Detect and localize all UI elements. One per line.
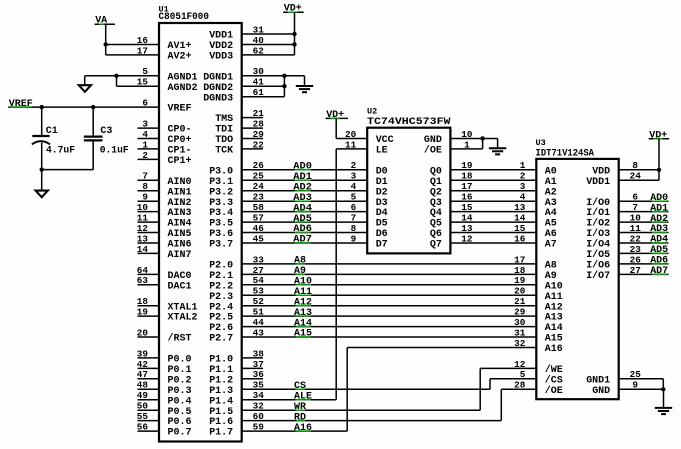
- svg-text:D0: D0: [376, 166, 388, 177]
- svg-text:P2.0: P2.0: [209, 261, 233, 272]
- net label AD3: [293, 193, 312, 204]
- svg-text:GND1: GND1: [586, 375, 610, 386]
- svg-text:15: 15: [514, 223, 525, 234]
- svg-text:AD3: AD3: [293, 193, 312, 204]
- net label A14: [294, 318, 312, 329]
- svg-text:4: 4: [520, 192, 526, 203]
- pin 11 AIN4 stub: [138, 221, 160, 223]
- pin 55 P0.6 stub: [138, 420, 160, 422]
- svg-text:A14: A14: [545, 323, 563, 334]
- svg-text:AIN3: AIN3: [168, 208, 192, 219]
- capacitor C3 0.1uF: [84, 107, 129, 170]
- net label AD4 (U3): [650, 235, 668, 246]
- svg-text:32: 32: [514, 338, 525, 349]
- wire /WE to WR vertical: [479, 368, 481, 410]
- net label VD+ (U2): [326, 110, 349, 121]
- svg-text:AIN2: AIN2: [168, 198, 192, 209]
- pin 3 CP0- stub: [138, 127, 160, 129]
- wire VD+ vertical (U2): [335, 118, 337, 138]
- pin 10 AIN3 stub: [138, 211, 160, 213]
- wire I/O6: [619, 263, 669, 265]
- wire I/O7: [619, 273, 669, 275]
- svg-text:TMS: TMS: [215, 114, 233, 125]
- ground U2: [489, 139, 506, 155]
- svg-text:D2: D2: [376, 187, 388, 198]
- svg-text:D4: D4: [376, 208, 388, 219]
- wire VA vertical: [105, 24, 107, 55]
- pin 39 P0.0 stub: [138, 357, 160, 359]
- svg-text:A2: A2: [545, 187, 557, 198]
- svg-text:A12: A12: [545, 302, 563, 313]
- svg-text:A4: A4: [545, 208, 557, 219]
- svg-text:20: 20: [514, 286, 525, 297]
- svg-text:DGND2: DGND2: [203, 83, 233, 94]
- svg-text:P1.6: P1.6: [209, 417, 233, 428]
- junction GND//OE: [480, 136, 484, 140]
- wire A16 to U3: [347, 347, 536, 349]
- svg-text:I/O6: I/O6: [586, 260, 610, 272]
- wire GND1 pin 25: [619, 378, 664, 380]
- junction DGND1: [282, 74, 286, 78]
- svg-text:VREF: VREF: [168, 104, 192, 115]
- svg-text:AD0: AD0: [293, 162, 312, 173]
- wire AD1: [242, 179, 368, 181]
- svg-text:P2.7: P2.7: [209, 334, 233, 345]
- svg-text:AD6: AD6: [293, 224, 312, 235]
- net label VREF: [9, 99, 33, 110]
- net label A10: [294, 277, 312, 288]
- wire A16 vertical: [346, 348, 348, 432]
- svg-text:AD4: AD4: [293, 203, 312, 214]
- svg-text:VD+: VD+: [326, 110, 344, 121]
- wire AGND junction drop: [116, 76, 118, 86]
- pin 49 P0.4 stub: [138, 399, 160, 401]
- svg-text:A13: A13: [545, 313, 563, 324]
- net label AD6: [293, 224, 312, 235]
- wire AD6: [242, 232, 368, 234]
- pin 56 P0.7 stub: [138, 430, 160, 432]
- svg-text:P3.0: P3.0: [209, 166, 233, 177]
- svg-text:AD2: AD2: [293, 183, 312, 194]
- wire /OE pin 28: [501, 388, 536, 390]
- wire /OE pin 1: [450, 148, 482, 150]
- pin 13 AIN6 stub: [138, 242, 160, 244]
- wire AD2: [242, 190, 368, 192]
- svg-text:1: 1: [520, 160, 526, 171]
- svg-text:3: 3: [520, 181, 526, 192]
- svg-text:18: 18: [514, 265, 525, 276]
- junction GND U3: [661, 387, 665, 391]
- wire GND pin 9: [619, 388, 664, 390]
- svg-text:CS: CS: [294, 381, 306, 392]
- junction AGND: [114, 74, 118, 78]
- svg-text:D5: D5: [376, 219, 388, 230]
- pin 2 CP1+ stub: [138, 158, 160, 160]
- svg-text:P2.5: P2.5: [209, 313, 233, 324]
- svg-text:19: 19: [514, 275, 525, 286]
- svg-text:/RST: /RST: [168, 333, 192, 345]
- svg-text:P0.4: P0.4: [168, 396, 192, 407]
- svg-text:/OE: /OE: [424, 145, 442, 157]
- wire A10: [242, 284, 537, 286]
- svg-text:A1: A1: [545, 177, 557, 188]
- svg-text:DGND1: DGND1: [203, 72, 233, 83]
- pin 36 P1.2 stub: [242, 378, 263, 380]
- svg-text:XTAL2: XTAL2: [168, 313, 198, 324]
- svg-text:TCK: TCK: [215, 146, 233, 157]
- svg-text:XTAL1: XTAL1: [168, 302, 198, 313]
- svg-text:VDD3: VDD3: [209, 52, 233, 63]
- svg-text:A16: A16: [294, 423, 312, 434]
- wire VD+ vertical (U3): [658, 139, 660, 181]
- pin 47 P0.2 stub: [138, 378, 160, 380]
- svg-text:A11: A11: [545, 292, 563, 303]
- svg-text:A13: A13: [294, 308, 312, 319]
- pin 22 TCK stub: [242, 148, 263, 150]
- wire AGND drop: [84, 76, 86, 85]
- svg-text:AIN0: AIN0: [168, 177, 192, 188]
- net label A15: [294, 329, 312, 340]
- svg-text:TC74VHC573FW: TC74VHC573FW: [367, 117, 451, 128]
- wire Q5 to A5: [450, 221, 536, 223]
- svg-text:GND: GND: [424, 135, 442, 146]
- wire VDD3 pin 62: [242, 54, 295, 56]
- wire A15: [242, 336, 537, 338]
- svg-text:P3.3: P3.3: [209, 198, 233, 209]
- pin 7 AIN0 stub: [138, 179, 160, 181]
- wire Q3 to A3: [450, 200, 536, 202]
- svg-text:A9: A9: [294, 266, 306, 277]
- wire ALE to LE vertical: [335, 149, 337, 400]
- svg-text:I/O7: I/O7: [586, 270, 610, 282]
- svg-text:IDT71V124SA: IDT71V124SA: [536, 148, 595, 159]
- svg-text:A16: A16: [545, 344, 563, 355]
- svg-text:VCC: VCC: [376, 135, 394, 146]
- svg-text:P2.4: P2.4: [209, 302, 233, 313]
- svg-text:AIN1: AIN1: [168, 187, 192, 198]
- svg-text:C1: C1: [46, 126, 58, 137]
- pin 21 TMS stub: [242, 117, 263, 119]
- svg-text:9: 9: [351, 233, 357, 244]
- svg-text:16: 16: [514, 233, 525, 244]
- svg-text:4.7uF: 4.7uF: [46, 146, 75, 157]
- net label CS: [294, 381, 306, 392]
- svg-text:I/O2: I/O2: [586, 218, 610, 230]
- pin 42 P0.1 stub: [138, 367, 160, 369]
- wire AD7: [242, 242, 368, 244]
- net label AD5 (U3): [650, 245, 668, 256]
- svg-text:4: 4: [351, 181, 357, 192]
- svg-text:P1.3: P1.3: [209, 386, 233, 397]
- svg-text:P2.1: P2.1: [209, 271, 233, 282]
- pin 12 AIN5 stub: [138, 232, 160, 234]
- svg-text:7: 7: [351, 213, 357, 224]
- wire A8: [242, 263, 537, 265]
- svg-text:A11: A11: [294, 287, 312, 298]
- svg-text:DAC1: DAC1: [168, 281, 192, 292]
- svg-text:CP1+: CP1+: [168, 156, 192, 167]
- svg-text:2: 2: [351, 160, 357, 171]
- svg-text:I/O5: I/O5: [586, 249, 610, 261]
- svg-text:AD7: AD7: [650, 266, 668, 277]
- pin 37 P1.1 stub: [242, 367, 263, 369]
- svg-text:A14: A14: [294, 318, 312, 329]
- net label A16: [294, 423, 312, 434]
- svg-text:A10: A10: [545, 281, 563, 292]
- wire I/O4: [619, 242, 669, 244]
- wire C1-C3 bottom: [42, 169, 93, 171]
- svg-text:Q7: Q7: [430, 240, 442, 251]
- svg-text:/WE: /WE: [545, 364, 563, 376]
- svg-text:CP0-: CP0-: [168, 125, 192, 136]
- net label AD1: [293, 172, 312, 183]
- wire I/O1: [619, 211, 669, 213]
- svg-text:I/O4: I/O4: [586, 239, 610, 251]
- svg-text:AD1: AD1: [650, 203, 668, 214]
- svg-text:C8051F000: C8051F000: [159, 12, 210, 23]
- wire A13: [242, 315, 537, 317]
- svg-text:GND: GND: [592, 386, 610, 397]
- svg-text:P3.2: P3.2: [209, 187, 233, 198]
- junction VREF/C3: [91, 105, 95, 109]
- svg-text:Q3: Q3: [430, 198, 442, 209]
- wire VDD pin 8: [619, 169, 659, 171]
- svg-text:6: 6: [351, 202, 357, 213]
- svg-text:A9: A9: [545, 271, 557, 282]
- IC U2 TC74VHC573FW: [345, 107, 473, 254]
- svg-text:ALE: ALE: [294, 392, 312, 403]
- svg-text:P2.3: P2.3: [209, 292, 233, 303]
- wire DGND3 pin 61: [242, 96, 285, 98]
- wire AGND1 pin 5: [85, 75, 159, 77]
- pin 14 AIN7 stub: [138, 252, 160, 254]
- svg-text:VDD1: VDD1: [209, 31, 233, 42]
- svg-text:P1.1: P1.1: [209, 365, 233, 376]
- wire VDD2 pin 40: [242, 44, 295, 46]
- pin 29 TDO stub: [242, 138, 263, 140]
- wire Q2 to A2: [450, 190, 536, 192]
- junction VDD2: [292, 42, 296, 46]
- wire VD+ vertical (U1): [294, 12, 296, 55]
- svg-text:VDD2: VDD2: [209, 41, 233, 52]
- net label AD5: [293, 214, 312, 225]
- wire I/O3: [619, 232, 669, 234]
- svg-text:Q5: Q5: [430, 219, 442, 230]
- net label AD2: [293, 183, 312, 194]
- net label AD7: [293, 235, 312, 246]
- svg-text:A6: A6: [545, 229, 557, 240]
- svg-text:AD3: AD3: [650, 224, 668, 235]
- svg-text:14: 14: [514, 213, 525, 224]
- svg-text:AV1+: AV1+: [168, 41, 192, 52]
- pin 28 TDI stub: [242, 127, 263, 129]
- svg-text:D1: D1: [376, 177, 388, 188]
- svg-text:A12: A12: [294, 297, 312, 308]
- wire A9: [242, 273, 537, 275]
- pin 63 DAC1 stub: [138, 284, 160, 286]
- svg-text:P0.5: P0.5: [168, 407, 192, 418]
- net label RD: [294, 412, 306, 423]
- svg-text:P2.6: P2.6: [209, 323, 233, 334]
- svg-text:D6: D6: [376, 229, 388, 240]
- svg-text:P0.7: P0.7: [168, 428, 192, 439]
- wire Q4 to A4: [450, 211, 536, 213]
- svg-text:RD: RD: [294, 412, 306, 423]
- svg-text:C3: C3: [100, 126, 112, 137]
- wire LE pin 11: [336, 148, 367, 150]
- net label AD6 (U3): [650, 256, 668, 267]
- IC U3 IDT71V124SA: [514, 138, 641, 399]
- svg-text:I/O3: I/O3: [586, 228, 610, 240]
- svg-text:I/O1: I/O1: [586, 207, 610, 219]
- svg-text:A8: A8: [545, 261, 557, 272]
- wire AGND2 pin 15: [117, 85, 160, 87]
- svg-text:5: 5: [351, 192, 357, 203]
- svg-text:3: 3: [351, 171, 357, 182]
- wire to analog ground: [41, 170, 43, 191]
- wire VCC pin 20: [336, 138, 367, 140]
- svg-text:A0: A0: [545, 166, 557, 177]
- svg-text:P1.5: P1.5: [209, 407, 233, 418]
- wire VA to AV1+ pin 16: [106, 44, 159, 46]
- svg-text:AD7: AD7: [293, 235, 312, 246]
- ground U3: [655, 389, 672, 414]
- net label AD7 (U3): [650, 266, 668, 277]
- wire RD: [242, 420, 502, 422]
- svg-text:VD+: VD+: [284, 4, 302, 15]
- svg-text:Q1: Q1: [430, 177, 442, 188]
- svg-text:30: 30: [514, 317, 525, 328]
- svg-text:D3: D3: [376, 198, 388, 209]
- wire A14: [242, 326, 537, 328]
- wire I/O5: [619, 252, 669, 254]
- svg-text:A3: A3: [545, 198, 557, 209]
- junction VA/AV1+: [104, 42, 108, 46]
- wire Q7 to A7: [450, 242, 536, 244]
- wire GND pin 10: [450, 138, 497, 140]
- wire VDD1 pin 24: [619, 179, 659, 181]
- svg-text:A7: A7: [545, 240, 557, 251]
- wire CS: [242, 388, 490, 390]
- svg-text:P3.5: P3.5: [209, 219, 233, 230]
- svg-text:AV2+: AV2+: [168, 52, 192, 63]
- wire Q1 to A1: [450, 179, 536, 181]
- net label VD+ (U3): [649, 130, 670, 141]
- wire A12: [242, 305, 537, 307]
- pin 48 P0.3 stub: [138, 388, 160, 390]
- digital ground DGND: [296, 76, 313, 92]
- svg-text:A10: A10: [294, 277, 312, 288]
- net label VA: [95, 16, 116, 27]
- wire A11: [242, 294, 537, 296]
- svg-text:P1.4: P1.4: [209, 396, 233, 407]
- svg-text:AIN5: AIN5: [168, 229, 192, 240]
- svg-text:AGND2: AGND2: [168, 83, 198, 94]
- svg-text:AD4: AD4: [650, 235, 668, 246]
- svg-text:P0.6: P0.6: [168, 417, 192, 428]
- pin 4 CP0+ stub: [138, 138, 160, 140]
- svg-text:TDO: TDO: [215, 135, 233, 146]
- svg-text:8: 8: [351, 223, 357, 234]
- net label VD+ (U1): [283, 4, 304, 15]
- svg-text:AD5: AD5: [293, 214, 312, 225]
- wire DGND2 pin 41: [242, 85, 285, 87]
- wire DGND1 pin 30: [242, 75, 305, 77]
- wire ALE: [242, 399, 337, 401]
- svg-text:P1.0: P1.0: [209, 355, 233, 366]
- wire /CS pin 5: [490, 378, 536, 380]
- svg-text:2: 2: [520, 171, 526, 182]
- net label AD1 (U3): [650, 203, 668, 214]
- svg-text:WR: WR: [294, 402, 306, 413]
- svg-text:Q4: Q4: [430, 208, 442, 219]
- svg-text:AD5: AD5: [650, 245, 668, 256]
- svg-text:U2: U2: [367, 107, 377, 117]
- svg-text:TDI: TDI: [215, 125, 233, 136]
- IC U1 C8051F000: [137, 4, 264, 441]
- junction VREF/C1: [40, 105, 44, 109]
- svg-text:AIN6: AIN6: [168, 240, 192, 251]
- capacitor C1 4.7uF: [32, 107, 75, 170]
- svg-text:P0.2: P0.2: [168, 375, 192, 386]
- wire GND1 drop: [662, 379, 664, 390]
- svg-text:VDD: VDD: [592, 166, 610, 177]
- wire I/O2: [619, 221, 669, 223]
- pin 8 AIN1 stub: [138, 190, 160, 192]
- svg-text:AIN4: AIN4: [168, 219, 192, 230]
- pin 50 P0.5 stub: [138, 409, 160, 411]
- pin 1 CP1- stub: [138, 148, 160, 150]
- svg-text:DAC0: DAC0: [168, 271, 192, 282]
- svg-text:P1.2: P1.2: [209, 375, 233, 386]
- svg-text:31: 31: [514, 327, 525, 338]
- svg-text:AIN7: AIN7: [168, 250, 192, 261]
- svg-text:Q6: Q6: [430, 229, 442, 240]
- svg-text:P0.1: P0.1: [168, 365, 192, 376]
- wire I/O0: [619, 200, 669, 202]
- pin 19 XTAL2 stub: [138, 315, 160, 317]
- svg-text:D7: D7: [376, 240, 388, 251]
- net label WR: [294, 402, 306, 413]
- svg-text:I/O0: I/O0: [586, 197, 610, 209]
- pin 9 AIN2 stub: [138, 200, 160, 202]
- svg-text:AD1: AD1: [293, 172, 312, 183]
- svg-text:U3: U3: [536, 138, 546, 148]
- junction cap ground: [40, 167, 44, 171]
- svg-text:21: 21: [514, 296, 525, 307]
- svg-text:DGND3: DGND3: [203, 93, 233, 104]
- svg-text:P0.3: P0.3: [168, 386, 192, 397]
- svg-text:13: 13: [514, 202, 525, 213]
- wire VA to AV2+ pin 17: [106, 54, 159, 56]
- svg-text:CP1-: CP1-: [168, 146, 192, 157]
- svg-text:AGND1: AGND1: [168, 72, 198, 83]
- pin 38 P1.0 stub: [242, 357, 263, 359]
- net label AD0: [293, 162, 312, 173]
- net label A12: [294, 297, 312, 308]
- net label AD4: [293, 203, 312, 214]
- net label A9: [294, 266, 306, 277]
- wire AD3: [242, 200, 368, 202]
- svg-text:17: 17: [514, 254, 525, 265]
- pin 20 /RST stub: [138, 336, 160, 338]
- svg-text:P3.4: P3.4: [209, 208, 233, 219]
- wire WR: [242, 409, 481, 411]
- net label AD2 (U3): [650, 214, 668, 225]
- wire AD4: [242, 211, 368, 213]
- wire VDD1 pin 31: [242, 33, 295, 35]
- wire DGND vertical: [283, 76, 285, 97]
